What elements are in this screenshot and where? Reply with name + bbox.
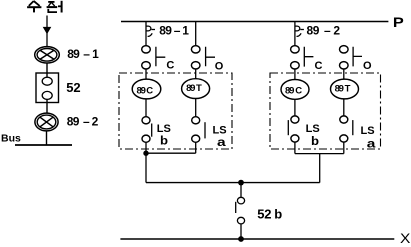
svg-text:89–2: 89–2 [307,23,341,37]
svg-text:52b: 52b [257,207,282,222]
svg-text:89–1: 89–1 [67,47,99,61]
svg-text:89T: 89T [186,83,202,94]
svg-text:LS: LS [213,125,227,137]
svg-text:C: C [166,60,174,72]
svg-text:89C: 89C [137,86,154,97]
svg-text:P: P [393,15,404,30]
svg-text:LS: LS [306,123,320,135]
svg-text:89T: 89T [335,84,351,95]
svg-text:C: C [315,60,323,72]
svg-text:O: O [215,60,224,72]
svg-text:89–2: 89–2 [67,115,99,129]
svg-text:O: O [363,60,372,72]
svg-text:a: a [217,136,226,149]
svg-text:b: b [311,135,320,148]
svg-text:89–1: 89–1 [159,23,189,37]
svg-text:89C: 89C [285,85,302,96]
svg-text:b: b [160,134,169,147]
svg-text:Bus: Bus [1,132,21,144]
svg-text:a: a [367,137,376,150]
svg-text:LS: LS [361,125,375,137]
svg-text:X: X [400,231,411,246]
svg-text:52: 52 [66,80,80,95]
